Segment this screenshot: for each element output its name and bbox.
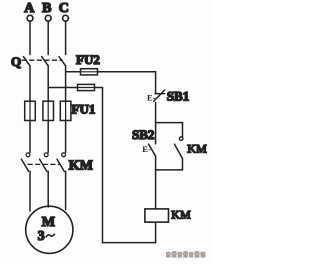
motor label 3 xyxy=(38,229,45,244)
wire Q to FU1 phase B xyxy=(47,66,49,102)
wire join to coil KM xyxy=(155,170,157,208)
wire coil KM to bottom return xyxy=(155,223,157,243)
fuse FU2 label xyxy=(76,52,100,67)
wire fuse FU2b to control return line xyxy=(95,88,103,243)
motor label tilde xyxy=(46,234,55,237)
switch Q pole C xyxy=(59,57,65,66)
contactor KM aux moving contact xyxy=(175,144,183,158)
svg-text:FU2: FU2 xyxy=(76,52,100,67)
contactor KM aux label xyxy=(187,142,207,156)
branch node top wire xyxy=(156,122,183,124)
svg-text:SB1: SB1 xyxy=(167,88,189,103)
fuse FU1 phase A xyxy=(25,101,36,120)
pushbutton SB2 actuator E xyxy=(142,144,151,154)
wire phase B to switch Q xyxy=(47,21,49,54)
terminal A xyxy=(27,15,33,21)
wire phase C to switch Q xyxy=(65,21,67,54)
bottom return wire xyxy=(103,242,156,244)
svg-text:M: M xyxy=(42,215,55,230)
wire fuse FU2a to SB1 xyxy=(98,72,156,94)
fuse FU2b xyxy=(78,84,95,90)
svg-text:3: 3 xyxy=(38,229,45,244)
pushbutton SB2 label xyxy=(132,127,154,142)
pushbutton SB1 top bar xyxy=(155,93,165,95)
switch Q linkage dashed line xyxy=(22,59,62,61)
wire FU1 to contactor KM phase B xyxy=(47,121,49,153)
node A label xyxy=(24,1,35,16)
switch Q label xyxy=(11,54,21,69)
svg-text:E-: E- xyxy=(147,92,156,102)
wire phase C tap to fuse FU2a xyxy=(66,71,81,73)
fuse FU1 phase B xyxy=(43,101,54,120)
pushbutton SB2 upper terminal xyxy=(155,123,157,144)
wire FU1 to contactor KM phase C xyxy=(65,121,67,153)
svg-text:B: B xyxy=(42,1,51,16)
svg-text:A: A xyxy=(24,1,35,16)
pushbutton SB1 actuator E xyxy=(147,92,156,102)
wire phase B tap to fuse FU2b xyxy=(48,87,77,89)
terminal B xyxy=(45,15,51,21)
contactor KM aux upper terminal xyxy=(182,123,184,137)
wire KM to motor phase C xyxy=(65,171,67,209)
terminal C xyxy=(63,15,69,21)
svg-text:KM: KM xyxy=(69,159,93,174)
motor M circle xyxy=(26,206,73,253)
wire Q to FU1 phase A xyxy=(29,66,31,102)
switch Q pole B xyxy=(42,57,48,66)
fuse FU2a xyxy=(81,69,98,75)
node B label xyxy=(42,1,51,16)
svg-text:C: C xyxy=(59,1,69,16)
coil KM xyxy=(145,209,169,222)
wire phase A to switch Q xyxy=(29,21,31,54)
watermark xyxy=(166,251,205,257)
contactor KM main label xyxy=(69,159,93,174)
contactor KM linkage dashed line xyxy=(28,163,60,165)
wire Q to FU1 phase C xyxy=(65,66,67,102)
svg-text:E-: E- xyxy=(142,144,151,154)
pushbutton SB2 moving contact xyxy=(149,144,156,156)
coil KM label xyxy=(171,208,191,222)
pushbutton SB1 label xyxy=(167,88,189,103)
contactor KM aux contact circle xyxy=(179,137,183,141)
contactor KM aux lower terminal xyxy=(182,158,184,170)
wire SB1 to branch node xyxy=(155,103,157,123)
motor label M xyxy=(42,215,55,230)
svg-text:SB2: SB2 xyxy=(132,127,154,142)
contactor KM main contact C xyxy=(57,153,66,171)
contactor KM main contact A xyxy=(21,153,30,171)
svg-text:KM: KM xyxy=(171,208,191,222)
fuse FU1 phase C xyxy=(60,101,71,120)
switch Q pole A xyxy=(23,57,29,66)
bottom join wire xyxy=(156,169,183,171)
svg-text:Q: Q xyxy=(11,54,21,69)
wire KM to motor phase B xyxy=(47,171,49,207)
contactor KM main contact B xyxy=(40,153,49,171)
pushbutton SB1 moving contact xyxy=(154,90,165,101)
fuse FU1 label xyxy=(72,102,96,117)
svg-text:FU1: FU1 xyxy=(72,102,96,117)
wire FU1 to contactor KM phase A xyxy=(29,121,31,153)
wire SB2 to bottom join xyxy=(155,156,157,170)
node C label xyxy=(59,1,69,16)
svg-text:KM: KM xyxy=(187,142,207,156)
wire KM to motor phase A xyxy=(29,171,31,211)
